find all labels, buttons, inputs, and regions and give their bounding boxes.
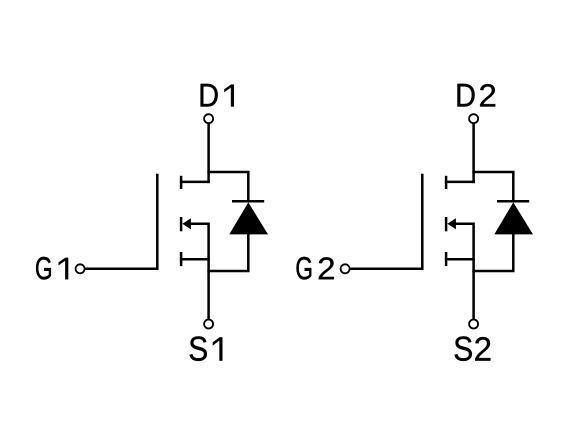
wire body line and S1 lead: [190, 224, 208, 319]
body diode cathode bar Q2: [497, 200, 529, 203]
wire G2 lead: [350, 268, 423, 271]
transistor Q2: [350, 124, 513, 319]
wire G1 lead: [85, 268, 158, 271]
label S1: [190, 336, 207, 361]
body channel stub Q2: [445, 217, 448, 231]
terminal circle S1: [204, 320, 213, 329]
body diode triangle Q2: [494, 202, 533, 234]
wire body line and S2 lead: [455, 224, 473, 319]
drain channel stub Q2: [445, 176, 448, 189]
label S2: [455, 336, 472, 361]
body arrow Q2: [447, 218, 456, 229]
wire source stub to lead Q2: [445, 258, 475, 261]
gate bar Q1: [156, 174, 159, 269]
terminal circle G1: [76, 264, 85, 273]
body diode cathode bar Q1: [232, 200, 264, 203]
body channel stub Q1: [180, 217, 183, 231]
wire diode top branch Q2: [472, 172, 513, 201]
drain channel stub Q1: [180, 176, 183, 189]
wire diode bottom branch Q1: [207, 234, 248, 272]
wire drain stub to lead Q2: [445, 181, 475, 184]
wire source stub to lead Q1: [180, 258, 210, 261]
wire D1 lead vertical: [207, 124, 210, 184]
label G1: [36, 257, 51, 280]
label D2: [458, 84, 475, 107]
body diode triangle Q1: [229, 202, 268, 234]
wire diode top branch Q1: [207, 172, 248, 201]
label G2: [297, 257, 312, 280]
wire diode bottom branch Q2: [472, 234, 513, 272]
source channel stub Q2: [445, 252, 448, 266]
terminal circle D2: [469, 114, 478, 123]
terminal circle G2: [341, 264, 350, 273]
body arrow Q1: [182, 218, 191, 229]
terminal circle S2: [469, 320, 478, 329]
source channel stub Q1: [180, 252, 183, 266]
terminal circle D1: [204, 114, 213, 123]
wire drain stub to lead Q1: [180, 181, 210, 184]
transistor Q1: [85, 124, 248, 319]
gate bar Q2: [421, 174, 424, 269]
wire D2 lead vertical: [472, 124, 475, 184]
label D1: [201, 84, 218, 107]
